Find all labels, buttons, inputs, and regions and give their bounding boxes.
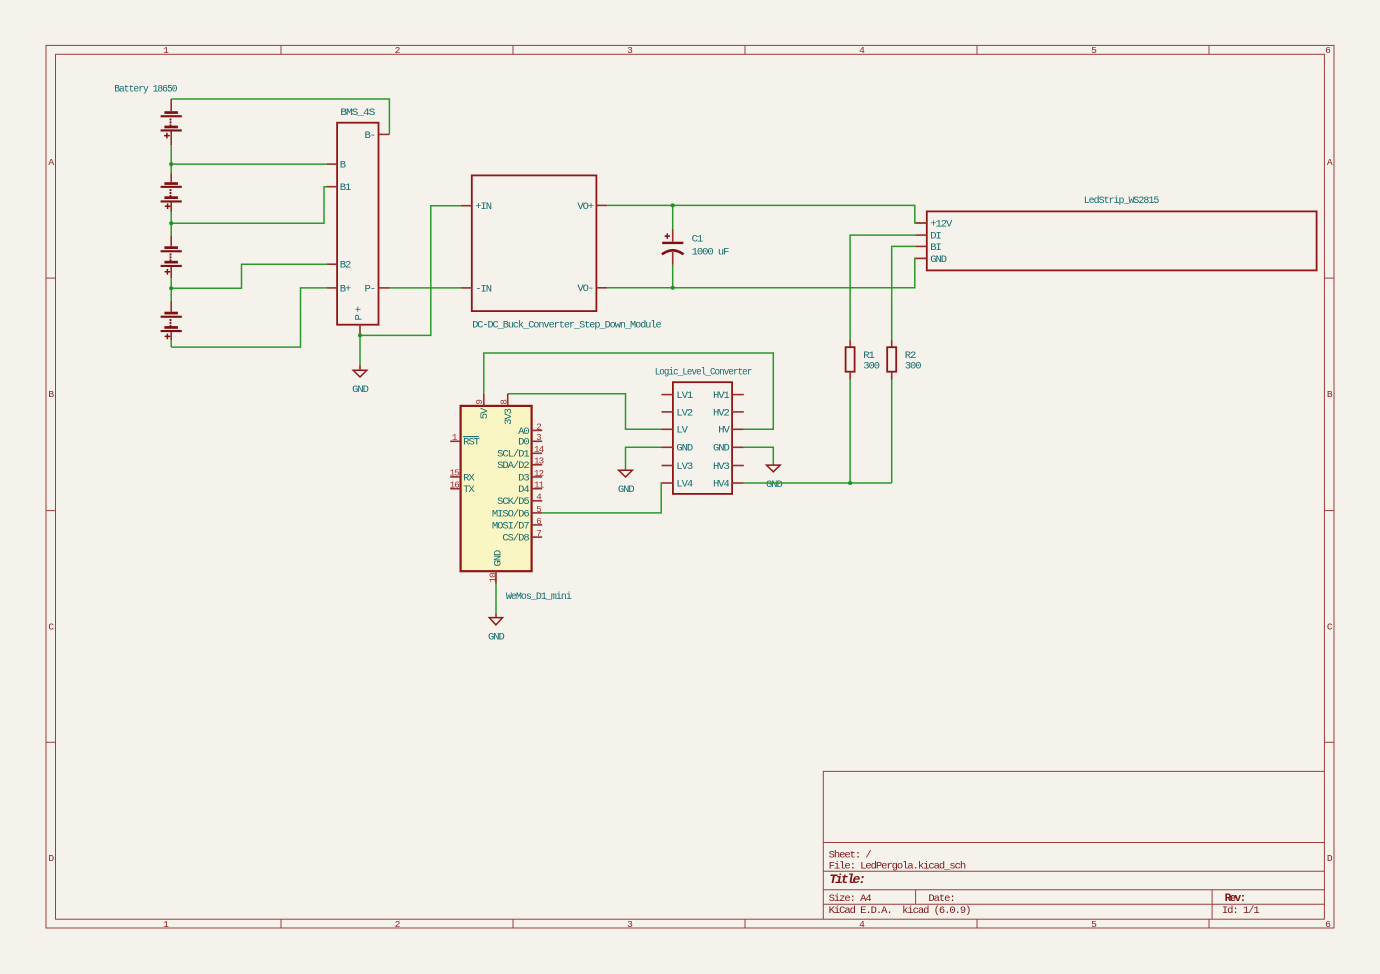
svg-text:GND: GND xyxy=(618,484,635,496)
svg-text:DC-DC_Buck_Converter_Step_Down: DC-DC_Buck_Converter_Step_Down_Module xyxy=(472,319,661,331)
junction HV4 R1 node xyxy=(848,481,852,485)
frame column numbers top xyxy=(163,45,1331,56)
svg-text:300: 300 xyxy=(905,360,922,372)
wire WeMos GND down xyxy=(495,584,497,614)
svg-text:LV2: LV2 xyxy=(676,407,693,419)
svg-text:C1: C1 xyxy=(692,233,703,245)
svg-text:D3: D3 xyxy=(518,472,529,484)
svg-text:GND: GND xyxy=(930,254,947,266)
battery cell BT3 xyxy=(161,246,182,274)
wire R1 bottom xyxy=(849,380,851,484)
svg-text:RST: RST xyxy=(463,437,480,449)
junction battery node B xyxy=(169,162,173,166)
svg-text:10: 10 xyxy=(488,573,499,583)
WeMos_D1_mini box U1 xyxy=(461,406,532,571)
svg-text:BI: BI xyxy=(930,242,941,254)
svg-text:P+: P+ xyxy=(354,304,366,320)
svg-text:Id: 1/1: Id: 1/1 xyxy=(1222,905,1260,917)
DC-DC buck converter box xyxy=(472,175,597,311)
svg-text:16: 16 xyxy=(450,479,460,490)
WeMos top pin stubs 5V 3V3 xyxy=(484,394,508,406)
svg-text:300: 300 xyxy=(863,360,880,372)
svg-text:SCK/D5: SCK/D5 xyxy=(497,496,529,508)
WeMos right pin stubs xyxy=(532,430,543,537)
wire buck VO- to LED strip GND xyxy=(607,258,927,287)
ground GND at WeMos xyxy=(488,618,505,644)
svg-text:LV3: LV3 xyxy=(676,461,693,473)
wire buck VO+ to LED strip +12V xyxy=(607,205,927,223)
LED strip pin stubs xyxy=(916,223,927,258)
wire LLC GND left xyxy=(626,447,662,470)
svg-text:SDA/D2: SDA/D2 xyxy=(497,460,529,472)
WeMos bottom pin stub GND xyxy=(495,571,497,584)
Logic_Level_Converter box xyxy=(673,382,732,494)
junction BMS P+ node xyxy=(358,333,362,337)
svg-text:GND: GND xyxy=(352,384,369,396)
svg-text:13: 13 xyxy=(534,456,544,467)
svg-text:5V: 5V xyxy=(479,407,491,419)
svg-text:GND: GND xyxy=(492,550,504,567)
svg-text:LV4: LV4 xyxy=(676,478,693,490)
frame column numbers bottom xyxy=(163,919,1331,930)
LLC pin stubs xyxy=(662,395,744,483)
wire LED strip BI to R2 xyxy=(892,246,916,340)
svg-text:HV4: HV4 xyxy=(713,478,730,490)
svg-text:12: 12 xyxy=(534,468,544,479)
capacitor C1 xyxy=(662,205,684,287)
svg-text:HV3: HV3 xyxy=(713,461,730,473)
wire node B xyxy=(171,163,327,165)
svg-text:3V3: 3V3 xyxy=(503,408,515,425)
svg-text:7: 7 xyxy=(536,528,541,539)
battery pin segments xyxy=(170,99,172,340)
svg-text:+12V: +12V xyxy=(930,219,953,231)
svg-text:D4: D4 xyxy=(518,484,529,496)
WeMos pin name RST with overline xyxy=(463,437,480,449)
svg-text:5: 5 xyxy=(536,504,541,515)
svg-text:HV2: HV2 xyxy=(713,407,730,419)
svg-text:GND: GND xyxy=(488,632,505,644)
svg-text:LV1: LV1 xyxy=(676,390,693,402)
wire node B1 xyxy=(171,187,327,224)
buck pin stubs xyxy=(461,205,607,288)
svg-text:D0: D0 xyxy=(518,437,529,449)
wire BMS P- to buck -IN xyxy=(390,287,461,289)
BMS pin stubs xyxy=(327,134,390,334)
svg-text:GND: GND xyxy=(676,443,693,455)
svg-text:P-: P- xyxy=(364,283,375,295)
svg-text:Battery 18650: Battery 18650 xyxy=(114,84,177,96)
svg-text:KiCad E.D.A. kicad (6.0.9): KiCad E.D.A. kicad (6.0.9) xyxy=(829,905,971,917)
WeMos left pin stubs xyxy=(450,441,460,488)
junction C1 top xyxy=(671,203,675,207)
LedStrip_WS2815 box xyxy=(927,211,1317,270)
svg-text:GND: GND xyxy=(766,479,783,491)
svg-text:HV: HV xyxy=(718,425,730,437)
svg-text:6: 6 xyxy=(536,516,541,527)
resistor R1 xyxy=(846,340,855,380)
svg-text:LV: LV xyxy=(676,425,688,437)
wire node B2 xyxy=(171,264,327,288)
svg-text:SCL/D1: SCL/D1 xyxy=(497,449,529,461)
wire BMS P+ to ground and buck xyxy=(360,206,461,365)
ground GND at LLC left xyxy=(618,470,635,496)
svg-text:-IN: -IN xyxy=(475,283,492,295)
svg-text:CS/D8: CS/D8 xyxy=(502,533,529,545)
svg-text:BMS_4S: BMS_4S xyxy=(340,107,375,119)
wire battery top to BMS B- xyxy=(171,99,389,134)
svg-text:9: 9 xyxy=(474,400,485,405)
wire LLC LV4 to WeMos MISO/D6 xyxy=(542,483,661,513)
svg-text:8: 8 xyxy=(498,400,509,405)
wire WeMos 5V to LLC HV xyxy=(484,353,774,429)
svg-text:+IN: +IN xyxy=(475,201,492,213)
svg-text:LedStrip_WS2815: LedStrip_WS2815 xyxy=(1084,195,1159,207)
junction battery node B2 xyxy=(169,286,173,290)
battery cell BT1 xyxy=(161,111,182,138)
title block xyxy=(823,771,1324,919)
svg-text:DI: DI xyxy=(930,231,941,243)
svg-text:11: 11 xyxy=(534,480,545,491)
svg-text:VO+: VO+ xyxy=(577,201,594,213)
svg-text:B-: B- xyxy=(364,130,375,142)
svg-text:B+: B+ xyxy=(340,283,351,295)
wire LLC HV4 to resistors xyxy=(744,482,892,484)
svg-text:MISO/D6: MISO/D6 xyxy=(492,508,530,520)
ground GND at LLC right xyxy=(766,465,783,491)
wire LLC GND right xyxy=(744,447,774,465)
svg-text:Date:: Date: xyxy=(928,893,954,905)
wire battery series links xyxy=(170,145,172,347)
svg-text:3: 3 xyxy=(536,432,541,443)
junction battery node B1 xyxy=(169,221,173,225)
BMS_4S module box xyxy=(337,123,378,325)
svg-text:WeMos_D1_mini: WeMos_D1_mini xyxy=(506,591,572,603)
ground GND at BMS P+ xyxy=(352,365,369,396)
svg-text:TX: TX xyxy=(463,484,475,496)
battery cell BT2 xyxy=(161,182,182,209)
frame row letters left xyxy=(48,157,54,864)
svg-text:Rev:: Rev: xyxy=(1225,893,1245,905)
svg-text:B2: B2 xyxy=(340,260,351,272)
svg-text:GND: GND xyxy=(713,443,730,455)
svg-text:Sheet: /: Sheet: / xyxy=(829,849,872,861)
wire LED strip DI to R1 xyxy=(850,235,915,340)
svg-text:B1: B1 xyxy=(340,182,351,194)
wire WeMos 3V3 to LLC LV xyxy=(508,394,662,430)
svg-text:Title:: Title: xyxy=(829,872,864,887)
svg-text:RX: RX xyxy=(463,472,475,484)
junction C1 bottom xyxy=(671,286,675,290)
wire R2 bottom xyxy=(891,380,893,484)
wire node B+ xyxy=(171,288,327,347)
frame row letters right xyxy=(1327,157,1333,864)
battery cell BT4 xyxy=(161,312,182,340)
svg-text:15: 15 xyxy=(450,468,460,479)
resistor R2 xyxy=(887,340,896,380)
svg-text:14: 14 xyxy=(534,444,545,455)
svg-text:B: B xyxy=(340,160,346,172)
svg-text:VO-: VO- xyxy=(577,283,593,295)
svg-text:HV1: HV1 xyxy=(713,390,730,402)
svg-text:1000 uF: 1000 uF xyxy=(692,247,730,259)
svg-text:Size: A4: Size: A4 xyxy=(829,893,872,905)
svg-text:MOSI/D7: MOSI/D7 xyxy=(492,520,530,532)
svg-text:Logic_Level_Converter: Logic_Level_Converter xyxy=(655,367,752,379)
svg-text:2: 2 xyxy=(536,421,541,432)
